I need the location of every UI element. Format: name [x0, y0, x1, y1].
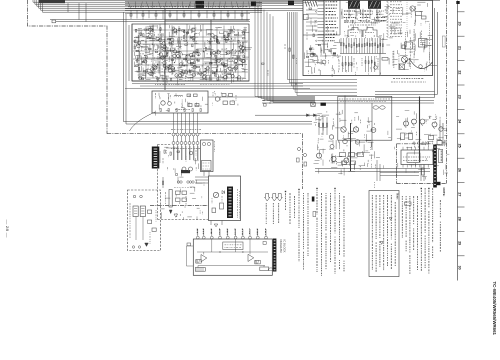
transistor Q201	[161, 101, 165, 105]
wire	[227, 33, 231, 35]
label	[431, 141, 433, 144]
note line	[334, 188, 335, 189]
power mesh pass3	[387, 131, 389, 135]
board boundary bottom	[397, 183, 447, 185]
emitter arrows	[405, 126, 407, 128]
transistor Q344	[192, 73, 195, 76]
capacitor C315	[165, 67, 168, 68]
label	[435, 119, 437, 122]
wire	[172, 47, 176, 49]
wire	[159, 151, 161, 163]
resistor R322	[228, 33, 229, 36]
label	[221, 48, 225, 50]
label	[326, 111, 328, 112]
tick stubs top band	[128, 2, 131, 9]
label	[206, 40, 208, 43]
label under box	[393, 78, 423, 80]
transistor Q606	[330, 145, 334, 149]
label	[213, 71, 215, 73]
note line	[316, 188, 317, 189]
wire	[241, 30, 247, 32]
transistor Q315	[228, 67, 231, 70]
amp block mesh pass3	[223, 32, 225, 35]
label	[317, 140, 319, 143]
transistor Q701	[182, 167, 186, 171]
resistor R359	[217, 40, 218, 43]
resistor R366	[134, 46, 135, 49]
wire	[175, 53, 177, 57]
wire	[348, 9, 350, 19]
wire	[238, 32, 240, 36]
capacitor C367	[190, 37, 193, 38]
wire y86	[140, 85, 303, 87]
label	[151, 72, 153, 76]
label	[231, 57, 233, 61]
transistor Q355	[192, 28, 195, 31]
wire	[177, 39, 179, 44]
wire	[146, 79, 151, 81]
label	[413, 29, 415, 50]
resistor R721	[220, 203, 224, 209]
xtal block	[195, 268, 205, 272]
board boundary vertical right	[302, 134, 304, 189]
label	[133, 41, 135, 45]
capacitor	[213, 14, 215, 17]
transistor	[139, 76, 142, 79]
label	[221, 196, 223, 202]
capacitor C333	[171, 59, 174, 60]
label	[149, 232, 151, 244]
label	[176, 213, 178, 217]
REC/PB amplifier block outline	[132, 24, 249, 81]
resistor R641	[263, 242, 266, 245]
wire	[224, 65, 228, 67]
label	[414, 171, 416, 173]
label	[199, 73, 203, 75]
label	[321, 115, 323, 119]
bus bottom	[132, 80, 249, 82]
label	[234, 53, 236, 56]
label	[202, 212, 204, 215]
label	[377, 36, 379, 38]
wire	[149, 27, 151, 34]
resistor R368	[135, 40, 136, 43]
label	[317, 147, 319, 150]
wire drop C	[85, 3, 87, 21]
note line	[413, 196, 415, 224]
wire	[227, 71, 231, 73]
wire	[134, 65, 137, 67]
label	[361, 35, 363, 37]
wire	[133, 52, 135, 56]
label	[181, 73, 183, 77]
label	[209, 41, 211, 45]
label	[241, 79, 243, 82]
label	[167, 49, 169, 53]
transistor Q326	[203, 71, 206, 74]
label	[358, 9, 360, 11]
resistor R336	[138, 67, 139, 70]
pin label rows mech mid	[344, 10, 355, 12]
wire	[178, 36, 181, 38]
resistor R369	[179, 28, 180, 31]
label	[359, 166, 361, 170]
label	[182, 53, 184, 55]
label	[320, 158, 322, 160]
resistor R201	[188, 104, 192, 107]
fuse F601	[169, 190, 172, 208]
label	[188, 78, 190, 82]
wire	[208, 76, 210, 79]
label	[360, 9, 362, 11]
wire curve	[130, 112, 156, 131]
label	[234, 29, 236, 33]
svg-text:DIAGRAM: DIAGRAM	[279, 240, 283, 253]
label	[442, 123, 444, 127]
wire y115	[255, 114, 320, 116]
label	[346, 70, 348, 73]
bus x165	[164, 9, 166, 90]
wire	[159, 74, 161, 77]
resistor R329	[227, 35, 228, 38]
wire	[162, 78, 164, 82]
label	[162, 56, 164, 60]
wire	[147, 28, 153, 30]
wire	[136, 59, 138, 63]
transistor Q328	[206, 67, 209, 70]
ground	[174, 214, 178, 217]
capacitor	[318, 44, 320, 45]
label	[198, 69, 200, 72]
capacitor C702	[207, 142, 210, 145]
wire	[210, 61, 215, 63]
resistor R331	[170, 64, 171, 67]
label	[337, 54, 339, 57]
wire	[135, 217, 137, 241]
wire	[233, 43, 235, 50]
jack X451	[399, 64, 405, 70]
wire	[208, 77, 210, 81]
transistor Q615	[439, 127, 443, 131]
wire drop	[246, 11, 248, 21]
label	[194, 65, 197, 67]
wire	[219, 33, 223, 35]
transistor	[165, 67, 168, 70]
capacitor	[329, 50, 331, 51]
label	[151, 64, 153, 69]
note line	[285, 191, 286, 192]
wire fan left	[255, 3, 315, 97]
wire	[177, 79, 179, 85]
label	[404, 32, 406, 43]
small square	[402, 45, 406, 49]
capacitor C642	[187, 243, 191, 246]
capacitor C398	[136, 50, 139, 51]
label	[334, 155, 336, 157]
wire	[180, 71, 184, 73]
wire	[188, 69, 196, 71]
amp internal bus	[133, 40, 248, 42]
connector blob	[181, 170, 190, 173]
wire	[163, 69, 165, 75]
label	[346, 145, 348, 147]
resistor R387	[164, 65, 165, 68]
label	[237, 56, 239, 61]
resistor R335	[243, 32, 244, 35]
label	[235, 49, 237, 53]
label	[201, 65, 203, 68]
wire	[203, 172, 205, 177]
capacitor	[306, 56, 308, 57]
capacitor	[183, 14, 185, 17]
pin 3	[211, 229, 213, 236]
transistor	[234, 59, 237, 62]
coil L201	[174, 95, 183, 96]
wire	[189, 62, 191, 66]
wire	[189, 35, 191, 39]
wires transformer area	[173, 146, 175, 160]
wire drop	[183, 11, 185, 19]
note line	[387, 195, 389, 266]
wire bus y121	[124, 121, 313, 123]
label	[179, 76, 181, 80]
capacitor C721	[212, 208, 216, 213]
board boundary MAIN2 vertical	[396, 144, 398, 184]
label	[203, 162, 210, 164]
label	[172, 41, 174, 45]
label C602 box	[438, 150, 442, 163]
label	[0, 0, 1, 1]
CPU timing block	[223, 242, 243, 250]
resistor R391	[143, 34, 144, 37]
label	[417, 146, 419, 150]
label	[370, 21, 372, 24]
label	[371, 11, 373, 15]
wire	[174, 69, 179, 71]
transistor	[150, 72, 153, 75]
label	[234, 67, 236, 69]
motor arc	[409, 58, 433, 69]
wire	[137, 35, 139, 42]
note line	[428, 188, 429, 189]
label	[411, 131, 413, 134]
label	[436, 116, 438, 120]
label	[177, 67, 180, 69]
transistor Q603	[329, 135, 333, 139]
label	[380, 35, 382, 37]
note line	[379, 195, 381, 238]
resistor R399	[242, 50, 243, 53]
wire	[212, 59, 219, 61]
wire	[146, 33, 152, 35]
label	[410, 37, 412, 68]
resistor R202	[195, 104, 199, 107]
label	[196, 59, 198, 61]
transistor Q601	[341, 127, 346, 132]
transistor Q352	[199, 72, 202, 75]
wire bus top-left	[33, 0, 262, 2]
capacitor	[227, 14, 229, 17]
wire drop	[190, 11, 192, 20]
label	[221, 37, 223, 40]
wire	[152, 34, 154, 41]
label row top	[128, 6, 194, 8]
label	[199, 210, 201, 213]
wire	[170, 44, 173, 46]
label	[190, 55, 192, 58]
label row above bias box	[155, 84, 185, 86]
capacitor C327	[242, 38, 245, 39]
transistor Q604	[343, 139, 347, 143]
label	[343, 149, 345, 152]
transistor Q311	[153, 65, 156, 68]
label	[347, 64, 349, 66]
svg-text:26: 26	[458, 168, 462, 172]
transistor	[187, 60, 190, 63]
capacitor C641	[268, 268, 273, 271]
label	[155, 49, 158, 51]
label	[0, 0, 1, 1]
label	[388, 13, 390, 15]
wire	[180, 69, 183, 71]
dotted line	[406, 0, 408, 33]
wire	[242, 64, 244, 67]
transistor Q441	[310, 53, 314, 57]
label	[0, 0, 1, 1]
transistor Q343	[241, 59, 244, 62]
wire	[147, 26, 154, 28]
wire mesh power right pass2	[424, 134, 430, 136]
wire	[156, 44, 159, 46]
svg-text:23: 23	[458, 95, 462, 99]
capacitor C381	[174, 32, 177, 33]
wire	[168, 25, 170, 28]
note line	[394, 202, 396, 266]
internal wires vertical	[211, 239, 213, 252]
transistor Q605	[355, 140, 359, 144]
label	[384, 9, 386, 13]
label	[159, 96, 161, 98]
transistor Q317	[159, 53, 162, 56]
label	[366, 17, 368, 20]
label	[348, 36, 350, 38]
pin 7	[242, 229, 244, 236]
label	[184, 206, 186, 209]
label	[232, 100, 234, 103]
label	[195, 41, 197, 44]
relay box	[304, 15, 309, 20]
wire	[151, 73, 155, 75]
label	[410, 8, 412, 17]
wire	[164, 75, 170, 77]
label	[155, 93, 157, 99]
label	[379, 13, 381, 16]
wire	[208, 41, 213, 43]
label	[150, 59, 152, 62]
wire	[240, 64, 247, 66]
board boundary power section	[150, 205, 208, 207]
label	[380, 73, 382, 76]
wire	[157, 57, 163, 59]
capacitor C378	[224, 70, 227, 71]
wire	[244, 56, 249, 58]
label	[230, 67, 232, 69]
label	[166, 79, 168, 83]
power sub-board dashed boundary	[157, 145, 159, 220]
transistor Q711	[213, 192, 218, 197]
capacitor C339	[237, 56, 240, 57]
label	[165, 192, 167, 204]
transistor Q607	[371, 128, 376, 133]
label REC	[350, 32, 358, 34]
capacitor C356	[172, 70, 175, 71]
note line	[339, 193, 341, 255]
label	[160, 44, 162, 49]
label row	[344, 22, 380, 24]
bus y171	[315, 171, 430, 173]
transistor Q333	[171, 67, 174, 70]
wire	[234, 57, 240, 59]
transistor Q320	[163, 61, 166, 64]
transistor Q321	[240, 49, 243, 52]
label	[140, 53, 145, 55]
capacitor C351	[136, 65, 139, 66]
resistor R358	[140, 33, 141, 36]
transistor Q327	[227, 51, 230, 54]
wire	[145, 29, 149, 31]
wire	[149, 38, 155, 40]
svg-text:Note:: Note:	[395, 194, 398, 200]
bus y172	[380, 172, 419, 174]
label	[164, 60, 166, 62]
board boundary MAIN2 top	[397, 143, 434, 145]
resistor R507	[293, 55, 294, 58]
wire top second	[255, 2, 310, 4]
wire	[155, 66, 157, 69]
wire	[217, 79, 221, 81]
transistor	[179, 63, 182, 66]
label	[191, 70, 193, 73]
head REC symbol	[348, 28, 362, 38]
pin	[132, 246, 134, 248]
label	[354, 18, 356, 22]
resistor R347	[152, 29, 153, 32]
wire	[210, 74, 212, 80]
label	[284, 44, 286, 49]
wire mesh power right extra	[418, 168, 424, 170]
note line	[390, 195, 392, 240]
driver block B	[255, 260, 260, 264]
resistor R365	[242, 42, 243, 45]
wire	[160, 75, 164, 77]
label	[338, 70, 340, 72]
label	[433, 122, 435, 124]
label	[157, 40, 161, 42]
label	[367, 21, 369, 23]
resistor R373	[171, 78, 172, 81]
wire	[227, 67, 231, 69]
capacitor C379	[234, 62, 237, 63]
pin 8	[249, 229, 251, 236]
wire	[195, 176, 208, 178]
label	[365, 15, 367, 17]
wire	[362, 9, 364, 19]
wire	[185, 34, 187, 39]
label	[141, 47, 143, 51]
wire	[171, 58, 173, 63]
resistor R362	[167, 50, 168, 53]
label	[354, 22, 356, 24]
